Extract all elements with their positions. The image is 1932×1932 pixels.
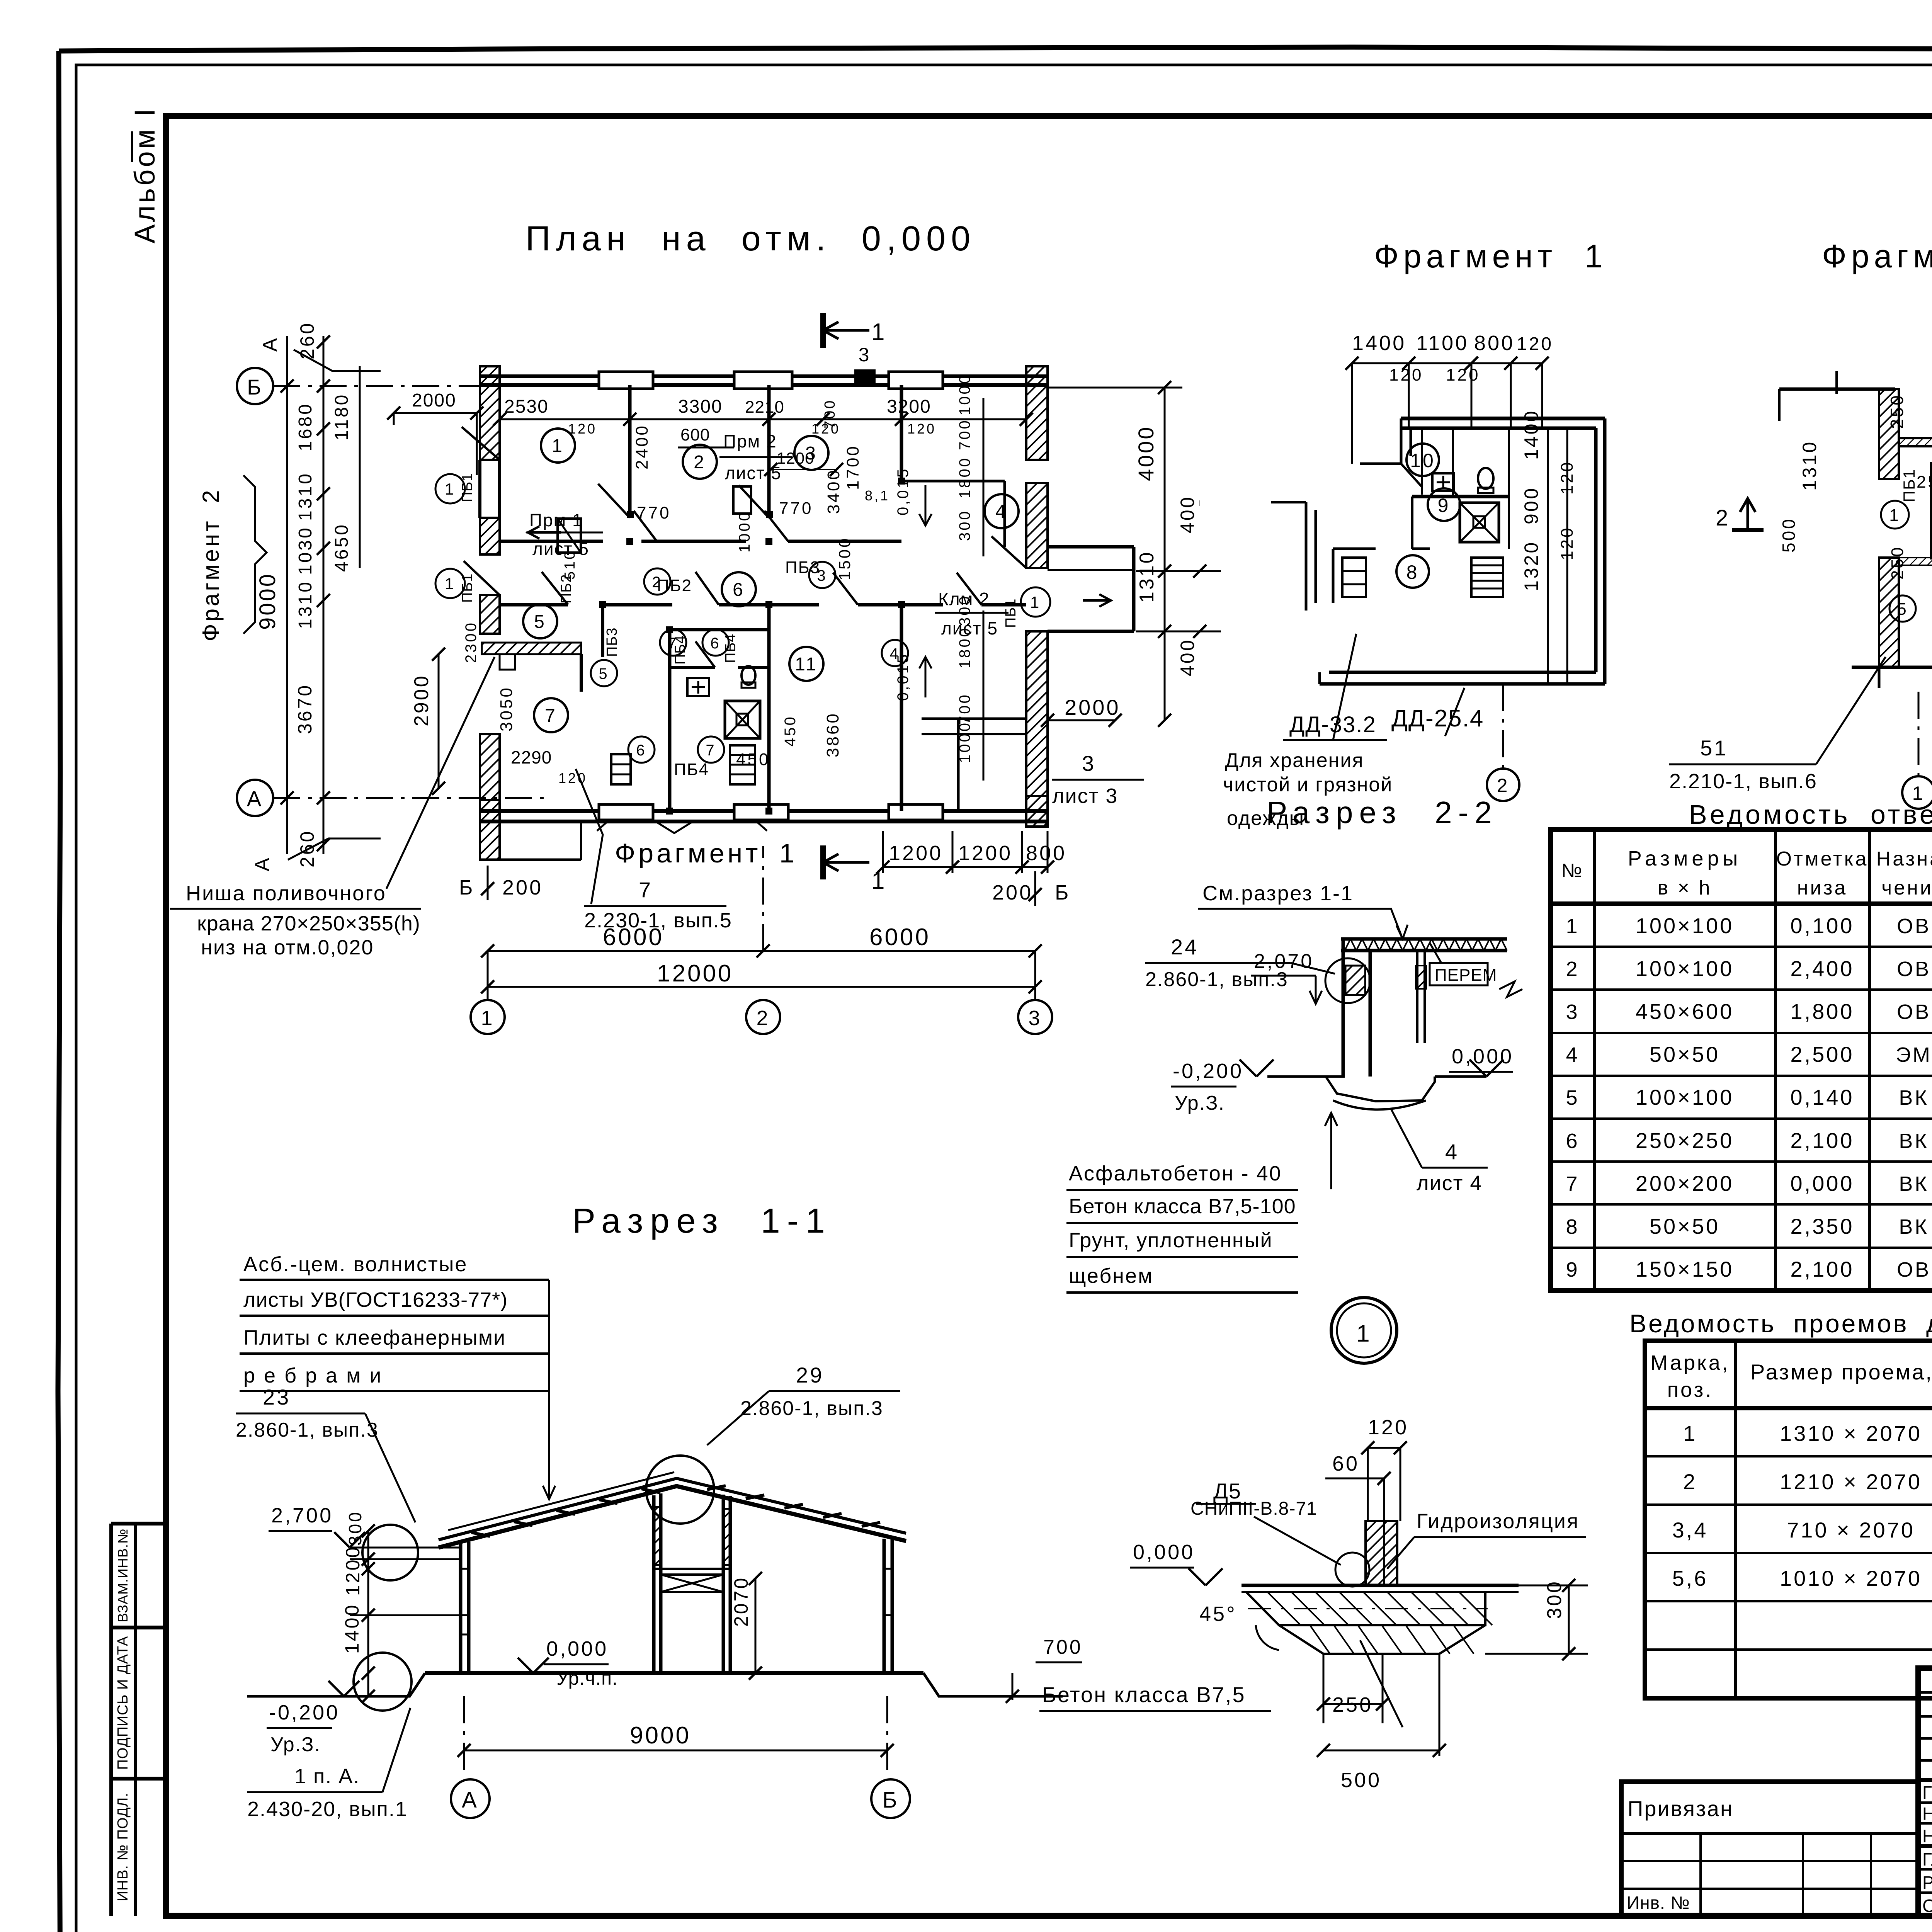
svg-text:400: 400	[1177, 638, 1198, 676]
privyazan table	[1621, 1782, 1918, 1916]
svg-text:-0,200: -0,200	[269, 1701, 340, 1724]
fragment2 opening circles	[1881, 501, 1909, 529]
room4 stall lines	[903, 480, 1005, 483]
svg-text:2400: 2400	[633, 424, 651, 469]
tambour partition	[601, 605, 604, 657]
svg-text:2,100: 2,100	[1790, 1128, 1854, 1153]
left bottom circle	[354, 1653, 412, 1711]
node1 wall stub hatched	[1366, 1521, 1397, 1585]
svg-text:ОВ: ОВ	[1897, 957, 1931, 981]
2070 dim	[755, 1578, 757, 1673]
svg-text:8: 8	[1406, 561, 1419, 583]
svg-text:Ведомость проемов дверей: Ведомость проемов дверей	[1629, 1309, 1932, 1338]
svg-text:2,100: 2,100	[1790, 1257, 1854, 1281]
svg-text:Асфальтобетон - 40: Асфальтобетон - 40	[1069, 1162, 1282, 1185]
svg-text:См.разрез 1-1: См.разрез 1-1	[1202, 882, 1354, 905]
svg-text:1: 1	[871, 319, 886, 345]
svg-text:5: 5	[1566, 1086, 1579, 1109]
svg-text:Фрагмент 1: Фрагмент 1	[615, 838, 798, 868]
svg-text:СНиПII-В.8-71: СНиПII-В.8-71	[1190, 1498, 1317, 1519]
partition room3/4	[900, 385, 903, 481]
svg-text:Грунт, уплотненный: Грунт, уплотненный	[1069, 1229, 1273, 1252]
svg-text:0,100: 0,100	[1790, 913, 1854, 938]
tambour hatched wall	[482, 643, 581, 654]
svg-text:ИНВ. № ПОДЛ.: ИНВ. № ПОДЛ.	[115, 1793, 131, 1901]
svg-text:9: 9	[1438, 495, 1451, 516]
svg-text:9000: 9000	[630, 1722, 691, 1749]
svg-text:120: 120	[907, 421, 936, 437]
node1 120 dim	[1368, 1447, 1400, 1449]
section roof	[439, 1486, 906, 1548]
svg-text:2: 2	[1683, 1469, 1697, 1494]
svg-text:100×100: 100×100	[1636, 956, 1734, 981]
column	[1342, 939, 1345, 1077]
svg-text:ВК: ВК	[1899, 1129, 1929, 1153]
svg-text:100×100: 100×100	[1636, 1085, 1734, 1109]
svg-text:ПЕРЕМ: ПЕРЕМ	[1435, 966, 1497, 985]
title block outer	[1918, 1668, 1932, 1916]
svg-text:2,350: 2,350	[1790, 1214, 1854, 1238]
svg-text:6: 6	[1566, 1129, 1579, 1153]
radiator 2	[730, 745, 755, 784]
svg-text:3: 3	[1566, 1000, 1579, 1024]
svg-text:1: 1	[445, 480, 456, 498]
svg-text:1180: 1180	[332, 393, 352, 440]
svg-text:100×100: 100×100	[1636, 913, 1734, 938]
svg-text:щебнем: щебнем	[1069, 1264, 1153, 1287]
axis dashdot lines	[273, 385, 595, 387]
svg-text:ПБ4: ПБ4	[723, 634, 739, 663]
svg-text:300: 300	[956, 509, 973, 541]
break mark right	[1499, 981, 1522, 997]
svg-text:600: 600	[680, 425, 710, 444]
svg-text:ГИП: ГИП	[1922, 1782, 1932, 1803]
svg-text:900: 900	[1520, 486, 1542, 524]
svg-text:2290: 2290	[511, 747, 552, 767]
node1 floor slab	[1242, 1584, 1519, 1587]
svg-text:7: 7	[639, 878, 653, 902]
svg-text:Б: Б	[247, 375, 263, 399]
svg-text:2000: 2000	[412, 390, 456, 411]
svg-text:ВЗАМ.ИНВ.№: ВЗАМ.ИНВ.№	[115, 1528, 131, 1622]
svg-text:9000: 9000	[255, 572, 280, 630]
right corridor extension	[1048, 545, 1134, 549]
2000 dim right	[1048, 719, 1115, 721]
svg-text:5,6: 5,6	[1672, 1566, 1708, 1590]
svg-text:2070: 2070	[730, 1576, 752, 1627]
corridor left arrow	[528, 531, 561, 534]
svg-text:2900: 2900	[410, 674, 433, 726]
svg-text:5: 5	[534, 612, 546, 632]
svg-text:120: 120	[1389, 366, 1423, 384]
svg-text:3050: 3050	[497, 686, 516, 731]
svg-text:Ур.З.: Ур.З.	[1175, 1092, 1225, 1114]
fragment1 room circles	[1406, 444, 1439, 476]
svg-text:1010 × 2070: 1010 × 2070	[1780, 1566, 1922, 1590]
svg-text:700: 700	[956, 418, 973, 450]
2900 dim	[438, 654, 440, 788]
svg-text:1: 1	[1566, 915, 1579, 938]
right dim chain	[1164, 388, 1166, 720]
svg-text:поз.: поз.	[1667, 1378, 1713, 1401]
svg-text:700: 700	[1043, 1636, 1083, 1658]
fragment1 walls	[1401, 417, 1605, 420]
svg-text:250: 250	[1917, 473, 1932, 492]
svg-text:1310: 1310	[295, 472, 316, 521]
ground line	[1267, 1075, 1345, 1078]
ground left	[247, 1673, 425, 1696]
fragment1 lower partitions	[1333, 548, 1376, 550]
svg-text:Прм 1: Прм 1	[529, 510, 583, 530]
svg-text:лист 3: лист 3	[1052, 784, 1118, 808]
svg-text:120: 120	[558, 770, 587, 786]
node1 marker	[1331, 1298, 1397, 1363]
svg-text:ЭМ: ЭМ	[1896, 1043, 1932, 1066]
svg-text:1400: 1400	[341, 1603, 363, 1654]
svg-text:2: 2	[756, 1007, 770, 1030]
svg-text:2210: 2210	[745, 398, 784, 417]
svg-text:Марка,: Марка,	[1650, 1351, 1730, 1374]
right wall opening mark	[1021, 587, 1050, 617]
svg-text:Привязан: Привязан	[1628, 1796, 1733, 1821]
svg-text:8: 8	[1566, 1215, 1579, 1238]
radiator 1	[611, 754, 631, 784]
svg-text:200: 200	[992, 881, 1033, 904]
svg-text:ПБ3: ПБ3	[785, 558, 820, 577]
svg-text:А: А	[251, 856, 274, 871]
svg-text:1: 1	[1889, 506, 1900, 525]
floor line	[425, 1671, 923, 1675]
svg-text:2.860-1, вып.3: 2.860-1, вып.3	[740, 1397, 883, 1420]
svg-text:0,000: 0,000	[1452, 1045, 1514, 1068]
svg-text:1680: 1680	[295, 402, 316, 451]
svg-text:250: 250	[1888, 546, 1907, 580]
svg-text:260: 260	[296, 830, 318, 867]
room circles	[541, 429, 575, 463]
dims 1200 1200 800	[883, 866, 952, 868]
svg-text:2300: 2300	[463, 621, 480, 663]
svg-text:24: 24	[1171, 935, 1199, 959]
fragment1 brace and label	[597, 822, 767, 833]
vedomost otverstiy grid	[1551, 830, 1932, 1291]
apex circle	[646, 1456, 714, 1524]
svg-text:120: 120	[1368, 1416, 1408, 1439]
svg-text:800: 800	[1026, 842, 1066, 865]
svg-text:А: А	[247, 786, 263, 811]
plan left wall	[480, 518, 500, 554]
svg-text:ВК: ВК	[1899, 1086, 1929, 1109]
svg-text:ПБ4: ПБ4	[674, 760, 709, 779]
svg-text:4: 4	[1445, 1139, 1459, 1164]
svg-text:2: 2	[1716, 505, 1730, 531]
svg-text:А: А	[462, 1787, 479, 1813]
300 dim right	[1568, 1585, 1570, 1654]
svg-text:23: 23	[263, 1385, 291, 1409]
svg-text:1400: 1400	[1352, 332, 1406, 355]
svg-text:1: 1	[552, 436, 564, 456]
fragment1 wc partitions	[1421, 428, 1423, 495]
svg-text:Асб.-цем. волнистые: Асб.-цем. волнистые	[243, 1253, 468, 1276]
svg-text:1500: 1500	[835, 537, 854, 580]
svg-text:10: 10	[1410, 450, 1435, 471]
svg-text:Размеры: Размеры	[1628, 847, 1742, 870]
svg-text:1030: 1030	[295, 526, 316, 575]
svg-text:НАЧ.ОТД.: НАЧ.ОТД.	[1922, 1826, 1932, 1846]
center beam and braces	[654, 1568, 730, 1570]
svg-text:Назна-: Назна-	[1876, 848, 1932, 870]
svg-text:крана 270×250×355(h): крана 270×250×355(h)	[197, 912, 420, 935]
svg-text:№: №	[1561, 860, 1584, 881]
svg-text:9: 9	[1566, 1258, 1579, 1281]
svg-text:ПБ1: ПБ1	[459, 573, 476, 603]
svg-text:400: 400	[1177, 495, 1198, 533]
svg-text:1800: 1800	[956, 626, 973, 668]
svg-text:3300: 3300	[678, 396, 723, 417]
svg-text:4000: 4000	[1134, 425, 1158, 481]
shower room partitions	[670, 628, 769, 631]
svg-text:0,140: 0,140	[1790, 1085, 1854, 1109]
svg-text:4650: 4650	[332, 523, 352, 572]
section mark 1 top	[820, 313, 826, 348]
svg-text:в × h: в × h	[1658, 877, 1712, 899]
svg-text:700: 700	[822, 399, 838, 429]
cabinet room2	[733, 486, 751, 514]
svg-text:ОВ: ОВ	[1897, 1258, 1931, 1281]
svg-text:ВК: ВК	[1899, 1172, 1929, 1196]
svg-text:2,700: 2,700	[271, 1504, 333, 1527]
svg-text:300: 300	[956, 594, 973, 626]
svg-text:2.210-1, вып.6: 2.210-1, вып.6	[1669, 770, 1817, 793]
svg-text:12000: 12000	[657, 960, 733, 987]
svg-text:700: 700	[956, 693, 973, 724]
room7 partition	[668, 630, 672, 811]
svg-text:ПБ1: ПБ1	[459, 473, 476, 502]
svg-text:1100: 1100	[1416, 332, 1469, 355]
svg-text:6000: 6000	[603, 924, 664, 951]
svg-text:Фрагмент 2: Фрагмент 2	[198, 488, 224, 641]
left sidebar boxes	[111, 1522, 166, 1526]
svg-text:1400: 1400	[1520, 409, 1542, 460]
svg-text:СТ.ИНЖ.: СТ.ИНЖ.	[1922, 1896, 1932, 1916]
sink	[687, 678, 709, 696]
svg-text:5: 5	[1897, 600, 1908, 619]
svg-text:1320: 1320	[1520, 541, 1542, 591]
svg-text:Ведомость отверстий: Ведомость отверстий	[1689, 799, 1932, 830]
svg-text:2.860-1, вып.3: 2.860-1, вып.3	[236, 1419, 379, 1441]
svg-text:4: 4	[1566, 1043, 1579, 1066]
svg-text:120: 120	[1558, 461, 1577, 495]
svg-text:ДД-25.4: ДД-25.4	[1391, 705, 1484, 732]
svg-text:А: А	[259, 336, 281, 352]
svg-text:1310 × 2070: 1310 × 2070	[1780, 1421, 1922, 1446]
svg-text:120: 120	[568, 421, 597, 437]
corridor bottom wall	[500, 603, 568, 607]
svg-text:50×50: 50×50	[1650, 1214, 1720, 1238]
svg-text:чение: чение	[1881, 877, 1932, 899]
section walls	[459, 1544, 463, 1673]
svg-text:770: 770	[637, 503, 671, 522]
svg-text:План на отм. 0,000: План на отм. 0,000	[526, 219, 976, 258]
svg-text:1310: 1310	[295, 580, 316, 629]
svg-text:0,000: 0,000	[1790, 1171, 1854, 1196]
center posts	[652, 1495, 656, 1673]
leader to roof	[548, 1280, 550, 1499]
svg-text:р е б р а м и: р е б р а м и	[243, 1364, 383, 1387]
fragment2 top wall	[1779, 388, 1895, 391]
svg-text:45°: 45°	[1199, 1602, 1237, 1626]
foundation trapezoid	[1279, 1625, 1485, 1654]
vedomost dverey grid	[1645, 1341, 1932, 1698]
svg-text:2: 2	[1566, 957, 1579, 981]
svg-text:лист 4: лист 4	[1417, 1172, 1482, 1195]
title block thin top rows	[1918, 1691, 1932, 1694]
left eave circle	[362, 1525, 418, 1580]
6000/12000 dims	[488, 950, 1035, 952]
svg-text:1,800: 1,800	[1790, 999, 1854, 1024]
svg-text:ПБ1: ПБ1	[1900, 469, 1918, 502]
toilet	[742, 666, 755, 685]
svg-text:Н.КОНТР.: Н.КОНТР.	[1922, 1804, 1932, 1824]
svg-text:ДД-33.2: ДД-33.2	[1289, 712, 1376, 737]
svg-text:250×250: 250×250	[1636, 1128, 1734, 1153]
svg-text:3670: 3670	[294, 684, 316, 734]
staff rows	[1918, 1801, 1932, 1804]
svg-text:1 п. А.: 1 п. А.	[294, 1765, 360, 1788]
svg-text:3: 3	[1082, 751, 1096, 776]
svg-text:3860: 3860	[823, 712, 842, 757]
svg-text:1: 1	[1356, 1320, 1371, 1347]
svg-text:250: 250	[1887, 393, 1907, 429]
niche left wall	[500, 654, 515, 670]
svg-text:2000: 2000	[1065, 695, 1121, 719]
bottom-left porch	[480, 859, 581, 861]
svg-text:2530: 2530	[504, 396, 549, 417]
svg-text:1200: 1200	[958, 842, 1012, 865]
svg-text:1: 1	[445, 575, 456, 593]
svg-text:300: 300	[345, 1510, 365, 1546]
svg-text:6: 6	[636, 742, 646, 759]
svg-text:ГЛ.СПЕЦ.: ГЛ.СПЕЦ.	[1922, 1849, 1932, 1869]
axis circles A B	[451, 1779, 490, 1818]
svg-text:0,000: 0,000	[546, 1637, 608, 1660]
svg-text:Б: Б	[459, 876, 474, 899]
fragment1 top dims	[1352, 362, 1409, 364]
svg-text:120: 120	[1446, 366, 1480, 384]
250/500 dims	[1323, 1654, 1325, 1723]
svg-text:6: 6	[710, 635, 721, 652]
svg-text:РУК.ГР.: РУК.ГР.	[1922, 1872, 1932, 1893]
svg-text:ОВ: ОВ	[1897, 915, 1931, 938]
svg-text:500: 500	[1341, 1769, 1381, 1792]
plan bottom wall	[480, 809, 1048, 813]
svg-text:чистой и грязной: чистой и грязной	[1223, 774, 1393, 796]
svg-text:ВК: ВК	[1899, 1215, 1929, 1238]
svg-text:3: 3	[1028, 1007, 1042, 1030]
svg-text:500: 500	[1779, 517, 1799, 553]
perem label	[1430, 963, 1488, 985]
svg-text:-0,200: -0,200	[1173, 1060, 1243, 1083]
bottom axis circles	[471, 1000, 505, 1034]
svg-text:7: 7	[706, 742, 716, 759]
9000 dim	[464, 1750, 887, 1752]
svg-text:800: 800	[1474, 332, 1515, 355]
svg-text:Инв. №: Инв. №	[1627, 1893, 1690, 1913]
svg-text:450×600: 450×600	[1636, 999, 1734, 1024]
svg-text:510: 510	[562, 549, 578, 580]
svg-text:120: 120	[1517, 334, 1553, 354]
ground right	[923, 1673, 1063, 1696]
door leaves plan	[598, 484, 630, 518]
svg-text:лист 5: лист 5	[532, 539, 589, 559]
plan top wall	[480, 374, 1048, 378]
svg-text:Разрез 1-1: Разрез 1-1	[572, 1202, 832, 1240]
svg-text:2: 2	[694, 452, 706, 473]
svg-text:200: 200	[502, 876, 543, 899]
svg-text:ПОДПИСЬ И ДАТА: ПОДПИСЬ И ДАТА	[115, 1636, 131, 1770]
svg-text:0,015: 0,015	[895, 467, 912, 515]
svg-text:Отметка: Отметка	[1776, 848, 1869, 870]
svg-text:Фрагмент 2: Фрагмент 2	[1822, 238, 1932, 274]
svg-text:ПБ2: ПБ2	[657, 576, 692, 595]
svg-text:Размер проема, мм: Размер проема, мм	[1750, 1360, 1932, 1384]
svg-text:ПБ4: ПБ4	[672, 635, 689, 665]
svg-text:450: 450	[736, 750, 770, 769]
svg-text:Разрез 2-2: Разрез 2-2	[1267, 795, 1498, 830]
plan right wall	[1026, 483, 1048, 568]
svg-text:1000: 1000	[956, 373, 973, 415]
svg-text:7: 7	[1566, 1172, 1579, 1196]
section mark 1 bottom	[820, 845, 826, 879]
svg-text:200×200: 200×200	[1636, 1171, 1734, 1196]
svg-text:Ур.ч.п.: Ур.ч.п.	[556, 1667, 618, 1689]
svg-text:4: 4	[995, 502, 1008, 522]
svg-text:120: 120	[1558, 526, 1577, 560]
svg-text:Бетон класса В7,5: Бетон класса В7,5	[1042, 1682, 1246, 1707]
svg-text:2,500: 2,500	[1790, 1042, 1854, 1066]
svg-text:450: 450	[782, 715, 799, 747]
svg-text:2,070: 2,070	[1254, 950, 1314, 973]
svg-text:50×50: 50×50	[1650, 1042, 1720, 1066]
svg-text:низа: низа	[1797, 877, 1848, 899]
axis circle B	[237, 368, 273, 404]
svg-text:5: 5	[599, 665, 609, 682]
svg-text:7: 7	[545, 706, 557, 726]
svg-text:770: 770	[779, 499, 813, 518]
svg-text:1200: 1200	[889, 842, 943, 865]
svg-text:250: 250	[1332, 1693, 1373, 1716]
svg-text:Гидроизоляция: Гидроизоляция	[1417, 1510, 1579, 1533]
room11 partition	[900, 605, 903, 811]
svg-text:3,4: 3,4	[1672, 1518, 1708, 1542]
roof slab	[1341, 937, 1507, 941]
fragment1 fixtures	[1432, 473, 1454, 491]
svg-text:1: 1	[481, 1007, 494, 1030]
svg-text:3400: 3400	[824, 468, 843, 514]
axis circle A left	[237, 780, 273, 816]
svg-text:1700: 1700	[844, 444, 862, 490]
svg-text:3200: 3200	[887, 396, 931, 417]
svg-text:Фрагмент 1: Фрагмент 1	[1374, 238, 1607, 274]
svg-text:Ниша поливочного: Ниша поливочного	[186, 882, 386, 905]
svg-text:ОВ: ОВ	[1897, 1000, 1931, 1024]
svg-text:2: 2	[1497, 775, 1510, 796]
svg-text:150×150: 150×150	[1636, 1257, 1734, 1281]
svg-text:1: 1	[1683, 1421, 1697, 1446]
svg-text:11: 11	[795, 654, 818, 675]
fragment2 lower wall	[1879, 558, 1899, 667]
partition room1/2	[628, 385, 632, 514]
svg-text:Б: Б	[1055, 881, 1070, 904]
